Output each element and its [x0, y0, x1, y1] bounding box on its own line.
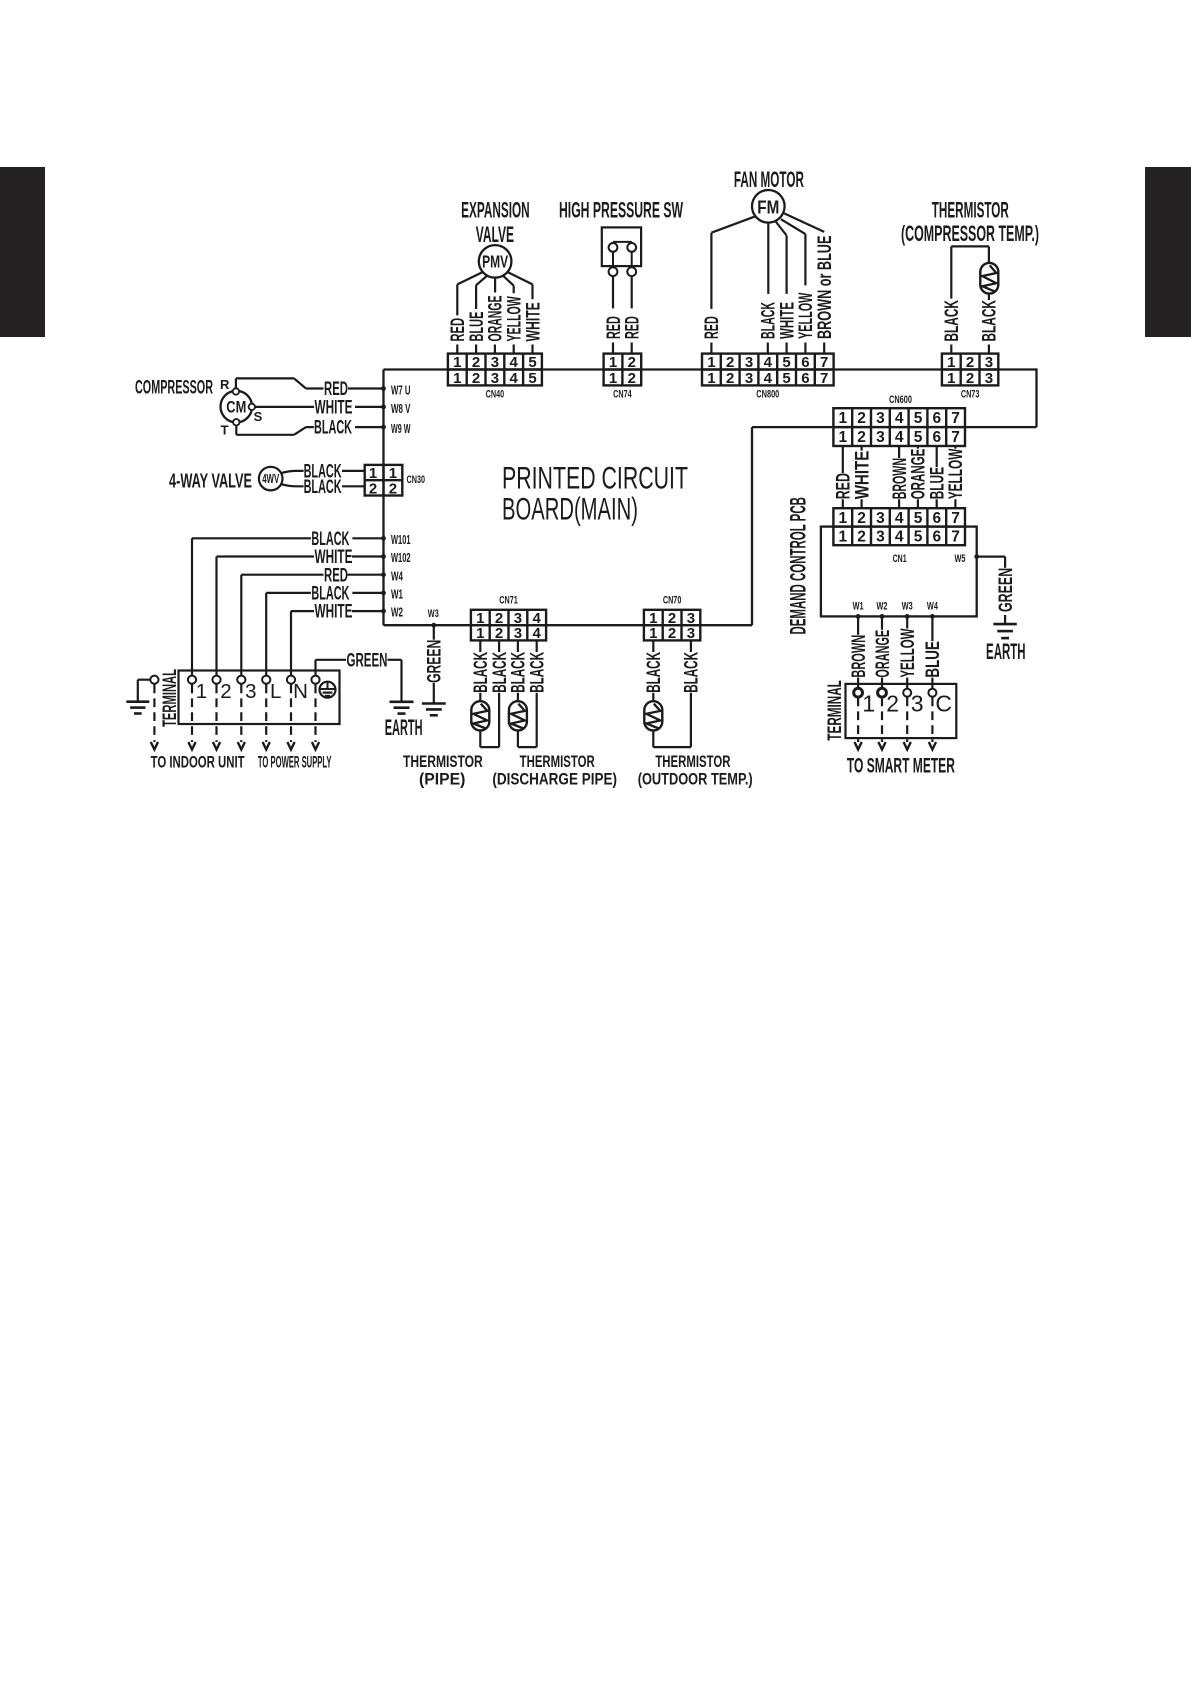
svg-text:2: 2	[668, 625, 676, 642]
wire FM pin4	[767, 223, 769, 294]
label BLACK CN71	[528, 652, 549, 693]
wire GREEN W3 to earth	[433, 683, 435, 704]
label W4	[391, 568, 403, 583]
svg-text:CN74: CN74	[613, 389, 632, 401]
wire W4 right	[348, 574, 384, 576]
label RED CN74-1	[604, 316, 625, 339]
expansion valve PMV	[479, 245, 512, 278]
svg-text:GREEN: GREEN	[996, 568, 1017, 612]
svg-text:W3: W3	[428, 608, 439, 620]
wire W102 right	[352, 555, 384, 557]
svg-text:6: 6	[932, 429, 941, 446]
svg-text:3: 3	[876, 529, 885, 546]
svg-text:6: 6	[801, 370, 809, 387]
svg-text:RED: RED	[702, 316, 723, 339]
wire W102 left	[217, 557, 315, 677]
connector CN73	[942, 354, 998, 387]
svg-text:(DISCHARGE PIPE): (DISCHARGE PIPE)	[492, 770, 617, 788]
label BLACK CN70-1	[644, 652, 665, 693]
svg-text:ORANGE: ORANGE	[873, 630, 894, 678]
label BROWN or BLUE CN800-7	[815, 236, 836, 339]
svg-text:EARTH: EARTH	[986, 639, 1026, 664]
svg-text:2: 2	[857, 410, 866, 427]
label 2 smart	[886, 691, 899, 717]
label W3 demand	[902, 601, 913, 613]
svg-text:3: 3	[745, 354, 753, 371]
svg-text:5: 5	[914, 429, 923, 446]
wire SW to CN74-1	[612, 276, 614, 308]
label W5	[955, 553, 966, 565]
svg-text:BLACK: BLACK	[644, 652, 665, 693]
terminal pin 2 main	[212, 676, 220, 684]
label WHITE CN800-5	[777, 302, 798, 339]
label COMPRESSOR	[135, 377, 213, 398]
dashed lead smart meter	[855, 698, 862, 750]
label WHITE W8	[315, 398, 353, 419]
svg-text:5: 5	[782, 354, 790, 371]
svg-text:2: 2	[726, 370, 734, 387]
wire 4WV lower	[281, 484, 304, 486]
label CN71	[499, 595, 518, 607]
wire W1 left	[266, 593, 311, 676]
dashed lead terminal	[287, 685, 294, 750]
svg-text:1: 1	[947, 354, 955, 371]
svg-text:2: 2	[472, 354, 480, 371]
svg-text:7: 7	[951, 429, 960, 446]
terminal pin 2 smart	[878, 688, 887, 697]
svg-text:1: 1	[609, 370, 617, 387]
decor right black bar	[1145, 167, 1191, 337]
svg-text:3: 3	[514, 625, 522, 642]
label GREEN W3	[425, 640, 446, 683]
svg-text:4: 4	[895, 529, 904, 546]
wire stubs CN70	[653, 640, 691, 652]
svg-text:7: 7	[820, 354, 828, 371]
svg-text:3: 3	[985, 354, 993, 371]
svg-text:C: C	[935, 691, 952, 717]
label ORANGE CN40-3	[486, 296, 507, 342]
dashed lead terminal	[238, 685, 245, 750]
svg-text:YELLOW: YELLOW	[898, 628, 919, 677]
label CN30	[407, 474, 426, 486]
label EARTH main	[385, 715, 423, 740]
label RED CN40-1	[448, 318, 469, 342]
wire stubs CN74	[613, 343, 632, 354]
ground earth demand	[993, 624, 1016, 638]
svg-text:7: 7	[820, 370, 828, 387]
svg-text:2: 2	[886, 691, 899, 717]
svg-text:T: T	[221, 423, 229, 438]
svg-text:RED: RED	[623, 316, 644, 339]
terminal pin C smart	[928, 689, 936, 697]
label BROWN CN600-4	[890, 458, 911, 499]
wire W4 to label	[931, 616, 933, 641]
svg-text:W1: W1	[853, 601, 864, 613]
svg-text:W2: W2	[877, 601, 888, 613]
svg-text:6: 6	[932, 410, 941, 427]
wire W2 to label	[881, 616, 883, 629]
svg-text:1: 1	[838, 429, 847, 446]
svg-text:BLACK: BLACK	[682, 652, 703, 693]
svg-text:2: 2	[857, 510, 866, 527]
svg-text:COMPRESSOR: COMPRESSOR	[135, 377, 213, 398]
label BLACK CN71	[509, 652, 530, 693]
label BLACK CN71	[490, 652, 511, 693]
svg-text:2: 2	[495, 625, 503, 642]
svg-text:2: 2	[472, 370, 480, 387]
wire WHITE to W8	[355, 406, 384, 408]
node W102	[381, 554, 386, 559]
dashed lead terminal	[188, 685, 195, 750]
4-way valve 4WV	[259, 467, 283, 491]
wire U discharge	[518, 693, 537, 747]
svg-text:1: 1	[453, 370, 461, 387]
label BLACK CN30-2	[304, 477, 342, 498]
label CN70	[663, 595, 682, 607]
svg-text:W4: W4	[927, 601, 939, 613]
svg-text:3: 3	[876, 510, 885, 527]
high pressure switch	[602, 227, 641, 276]
compressor terminal S	[249, 404, 255, 410]
svg-text:N: N	[293, 680, 308, 703]
svg-text:4: 4	[895, 429, 904, 446]
svg-text:CN70: CN70	[663, 595, 682, 607]
wire CN71-3 pill	[517, 693, 519, 701]
label RED CN74-2	[623, 316, 644, 339]
svg-text:BLACK: BLACK	[528, 652, 549, 693]
label W1	[391, 587, 403, 602]
connector CN70	[644, 610, 700, 642]
label THERMISTOR (DISCHARGE PIPE)	[492, 753, 617, 789]
wire thermistor bridge	[951, 246, 989, 298]
compressor terminal T	[233, 419, 239, 425]
wire SW to CN74-2	[631, 276, 633, 308]
compressor terminal R	[233, 388, 239, 394]
svg-text:1: 1	[649, 625, 657, 642]
label TERMINAL main	[160, 669, 181, 727]
svg-text:BOARD(MAIN): BOARD(MAIN)	[502, 490, 638, 526]
svg-text:3: 3	[491, 354, 499, 371]
terminal pin 3 main	[237, 676, 245, 684]
svg-text:6: 6	[932, 510, 941, 527]
wire FM pin6	[781, 219, 806, 285]
wire 4WV upper	[281, 471, 304, 473]
label C smart	[935, 691, 952, 717]
node W8	[381, 405, 386, 410]
label THERMISTOR (COMPRESSOR TEMP.)	[901, 198, 1039, 247]
wire CN71-1 pill	[479, 693, 481, 701]
label T	[221, 423, 229, 438]
svg-text:TO SMART METER: TO SMART METER	[847, 754, 955, 777]
label TO INDOOR UNIT	[151, 753, 245, 772]
svg-text:EXPANSION: EXPANSION	[461, 198, 530, 223]
svg-text:WHITE: WHITE	[523, 302, 544, 341]
svg-text:1: 1	[838, 529, 847, 546]
svg-text:THERMISTOR: THERMISTOR	[403, 753, 483, 771]
svg-text:4: 4	[895, 510, 904, 527]
label W9 W	[391, 421, 411, 436]
svg-text:HIGH PRESSURE SW: HIGH PRESSURE SW	[559, 198, 683, 223]
label W7 U	[391, 382, 411, 397]
svg-text:5: 5	[528, 370, 536, 387]
label R	[220, 377, 230, 392]
wire PMV pin4	[503, 276, 514, 294]
connector CN71	[471, 610, 546, 642]
svg-text:FAN MOTOR: FAN MOTOR	[734, 167, 804, 192]
label YELLOW CN40-4	[505, 296, 526, 341]
node W1	[381, 591, 386, 596]
svg-text:2: 2	[966, 354, 974, 371]
svg-text:2: 2	[628, 354, 636, 371]
svg-text:7: 7	[951, 410, 960, 427]
label 2 main	[220, 680, 231, 703]
svg-text:5: 5	[782, 370, 790, 387]
label BLACK CN30-1	[304, 462, 342, 483]
label W102	[391, 550, 411, 565]
node W4 demand	[930, 614, 935, 619]
svg-text:4: 4	[510, 354, 519, 371]
svg-text:5: 5	[914, 529, 923, 546]
wire W1 right	[352, 592, 383, 594]
label TO POWER SUPPLY	[258, 753, 332, 772]
wire external earth	[138, 680, 151, 702]
svg-text:BROWN: BROWN	[849, 635, 870, 678]
terminal pin 1 main	[188, 676, 196, 684]
svg-text:3: 3	[911, 691, 924, 717]
wire W3 down	[433, 625, 435, 640]
svg-text:W4: W4	[391, 568, 403, 583]
wire W2 right	[352, 610, 384, 612]
PCB MAIN board outline	[384, 368, 1037, 625]
svg-text:W7 U: W7 U	[391, 382, 411, 397]
svg-text:5: 5	[528, 354, 536, 371]
label CN800	[756, 389, 779, 401]
label 4-WAY VALVE	[169, 470, 252, 492]
svg-text:BLACK: BLACK	[304, 477, 342, 498]
wire W3 to label	[906, 616, 908, 628]
svg-text:2: 2	[857, 429, 866, 446]
svg-text:GREEN: GREEN	[347, 650, 388, 671]
label GREEN terminal	[347, 650, 388, 671]
label W2	[391, 605, 403, 620]
label EARTH demand	[986, 639, 1026, 664]
label 3 main	[245, 680, 256, 703]
wire BLACK to CN30-1	[342, 470, 365, 472]
wire stubs CN40	[457, 345, 532, 354]
svg-text:2: 2	[389, 480, 397, 497]
svg-text:4: 4	[510, 370, 519, 387]
svg-text:3: 3	[876, 429, 885, 446]
label BLACK W9	[314, 418, 352, 439]
dashed lead terminal	[263, 685, 270, 750]
label W1 demand	[853, 601, 864, 613]
wire W2 left	[291, 611, 314, 676]
label GREEN W5	[996, 568, 1017, 612]
label BLACK CN70-3	[682, 652, 703, 693]
label RED CN800-1	[702, 316, 723, 339]
svg-text:7: 7	[951, 510, 960, 527]
label THERMISTOR (OUTDOOR TEMP.)	[638, 753, 753, 789]
wire PMV pin3	[494, 278, 496, 293]
wire PMV pin2	[476, 276, 487, 310]
label YELLOW CN800-6	[796, 293, 817, 339]
connector CN600	[833, 408, 965, 446]
svg-text:TO POWER SUPPLY: TO POWER SUPPLY	[258, 753, 332, 772]
label BLACK CN73-3	[980, 300, 1001, 342]
svg-text:BLUE: BLUE	[923, 641, 944, 678]
svg-text:CM: CM	[226, 399, 246, 417]
label ORANGE CN600-5	[909, 449, 930, 500]
svg-text:W1: W1	[391, 587, 403, 602]
svg-text:3: 3	[491, 370, 499, 387]
svg-text:BLACK: BLACK	[942, 300, 963, 342]
dashed lead smart meter	[929, 698, 936, 750]
svg-text:W3: W3	[902, 601, 913, 613]
label CN1	[893, 553, 907, 565]
ground earth left	[126, 702, 149, 714]
label BLACK W101	[311, 529, 349, 550]
label W8 V	[391, 401, 411, 416]
ground earth W3	[422, 704, 446, 716]
terminal pin N main	[287, 676, 295, 684]
thermistor element outdoor	[644, 701, 662, 730]
svg-text:BLACK: BLACK	[980, 300, 1001, 342]
connector CN40	[448, 354, 542, 387]
svg-text:3: 3	[245, 680, 256, 703]
wire YELLOW to terminal	[906, 678, 908, 689]
wire W5 to earth	[977, 557, 1005, 568]
label CN40	[486, 389, 505, 401]
svg-text:1: 1	[838, 410, 847, 427]
svg-text:THERMISTOR: THERMISTOR	[655, 753, 730, 771]
label CN74	[613, 389, 632, 401]
connector CN74	[604, 354, 642, 387]
terminal block smart meter outline	[846, 684, 957, 738]
terminal block main outline	[179, 671, 340, 725]
wire stubs CN71	[480, 640, 536, 652]
svg-text:4WV: 4WV	[262, 471, 279, 486]
label W101	[391, 532, 411, 547]
label BLACK W1	[311, 584, 349, 605]
label HIGH PRESSURE SW	[559, 198, 683, 223]
wire GREEN right	[388, 660, 402, 702]
svg-text:5: 5	[914, 510, 923, 527]
svg-text:1: 1	[947, 370, 955, 387]
thermistor element compressor	[980, 263, 998, 294]
node W5	[974, 554, 979, 559]
svg-text:FM: FM	[757, 196, 779, 217]
svg-text:4: 4	[764, 354, 773, 371]
svg-text:YELLOW: YELLOW	[946, 449, 967, 500]
svg-text:4-WAY VALVE: 4-WAY VALVE	[169, 470, 252, 492]
svg-text:3: 3	[876, 410, 885, 427]
label L main	[270, 680, 281, 703]
svg-text:6: 6	[801, 354, 809, 371]
label RED W7	[324, 379, 348, 400]
svg-text:W101: W101	[391, 532, 411, 547]
dashed lead terminal	[312, 685, 319, 750]
svg-text:1: 1	[707, 354, 715, 371]
wire PMV pin1	[457, 272, 482, 315]
label W4 demand	[927, 601, 939, 613]
label BLUE CN40-2	[467, 312, 488, 342]
svg-text:W102: W102	[391, 550, 411, 565]
svg-text:S: S	[254, 409, 263, 424]
label WHITE CN40-5	[523, 302, 544, 341]
label DEMAND CONTROL PCB	[785, 497, 810, 634]
svg-text:CN73: CN73	[961, 389, 980, 401]
svg-text:1: 1	[838, 510, 847, 527]
wire compressor S	[255, 406, 314, 408]
svg-text:VALVE: VALVE	[476, 222, 514, 247]
label BLUE smart meter	[923, 641, 944, 678]
label CN73	[961, 389, 980, 401]
node W3	[431, 623, 436, 628]
svg-text:(PIPE): (PIPE)	[419, 770, 465, 788]
wire FM pin5	[775, 221, 786, 294]
svg-text:TO INDOOR UNIT: TO INDOOR UNIT	[151, 753, 245, 772]
svg-text:WHITE: WHITE	[315, 398, 353, 419]
label WHITE W2	[315, 602, 353, 623]
svg-text:W5: W5	[955, 553, 966, 565]
label PRINTED CIRCUIT BOARD(MAIN)	[502, 460, 688, 527]
svg-text:CN800: CN800	[756, 389, 779, 401]
node W101	[381, 536, 386, 541]
earth symbol in terminal	[320, 682, 336, 698]
label WHITE CN600-2	[852, 451, 873, 500]
label YELLOW smart meter	[898, 628, 919, 677]
svg-text:THERMISTOR: THERMISTOR	[520, 753, 595, 771]
svg-text:CN1: CN1	[893, 553, 907, 565]
wire RED to W7	[348, 387, 384, 389]
svg-text:1: 1	[707, 370, 715, 387]
label YELLOW CN600-7	[946, 449, 967, 500]
svg-text:R: R	[220, 377, 230, 392]
svg-text:(COMPRESSOR TEMP.): (COMPRESSOR TEMP.)	[901, 221, 1039, 246]
label RED CN600-1	[834, 473, 855, 499]
svg-text:4: 4	[895, 410, 904, 427]
wire GREEN to earth	[1004, 615, 1006, 624]
svg-text:BROWN or BLUE: BROWN or BLUE	[815, 236, 836, 339]
wire stubs CN800	[711, 343, 824, 354]
svg-text:BLACK: BLACK	[314, 418, 352, 439]
svg-text:1: 1	[476, 625, 484, 642]
wire BROWN to terminal	[857, 678, 859, 689]
svg-text:WHITE: WHITE	[315, 602, 353, 623]
svg-text:1: 1	[196, 680, 207, 703]
dashed lead smart meter	[878, 698, 885, 750]
svg-text:2: 2	[726, 354, 734, 371]
svg-text:CN30: CN30	[407, 474, 426, 486]
svg-text:DEMAND CONTROL PCB: DEMAND CONTROL PCB	[785, 497, 810, 634]
label W3	[428, 608, 439, 620]
wire GREEN terminal	[316, 660, 347, 676]
wire CN70-1 pill	[652, 693, 654, 701]
terminal pin 3 smart	[903, 689, 911, 697]
wire FM pin1	[711, 216, 755, 309]
dashed lead terminal	[151, 685, 158, 750]
svg-text:W8 V: W8 V	[391, 401, 411, 416]
label BROWN smart meter	[849, 635, 870, 678]
label TERMINAL smart meter	[825, 680, 846, 741]
ground earth green	[390, 702, 414, 714]
label TO SMART METER	[847, 754, 955, 777]
svg-text:3: 3	[745, 370, 753, 387]
label RED W4	[324, 565, 348, 586]
svg-text:CN40: CN40	[486, 389, 505, 401]
wire BLACK to W9	[355, 426, 384, 428]
label BLACK CN71	[471, 652, 492, 693]
